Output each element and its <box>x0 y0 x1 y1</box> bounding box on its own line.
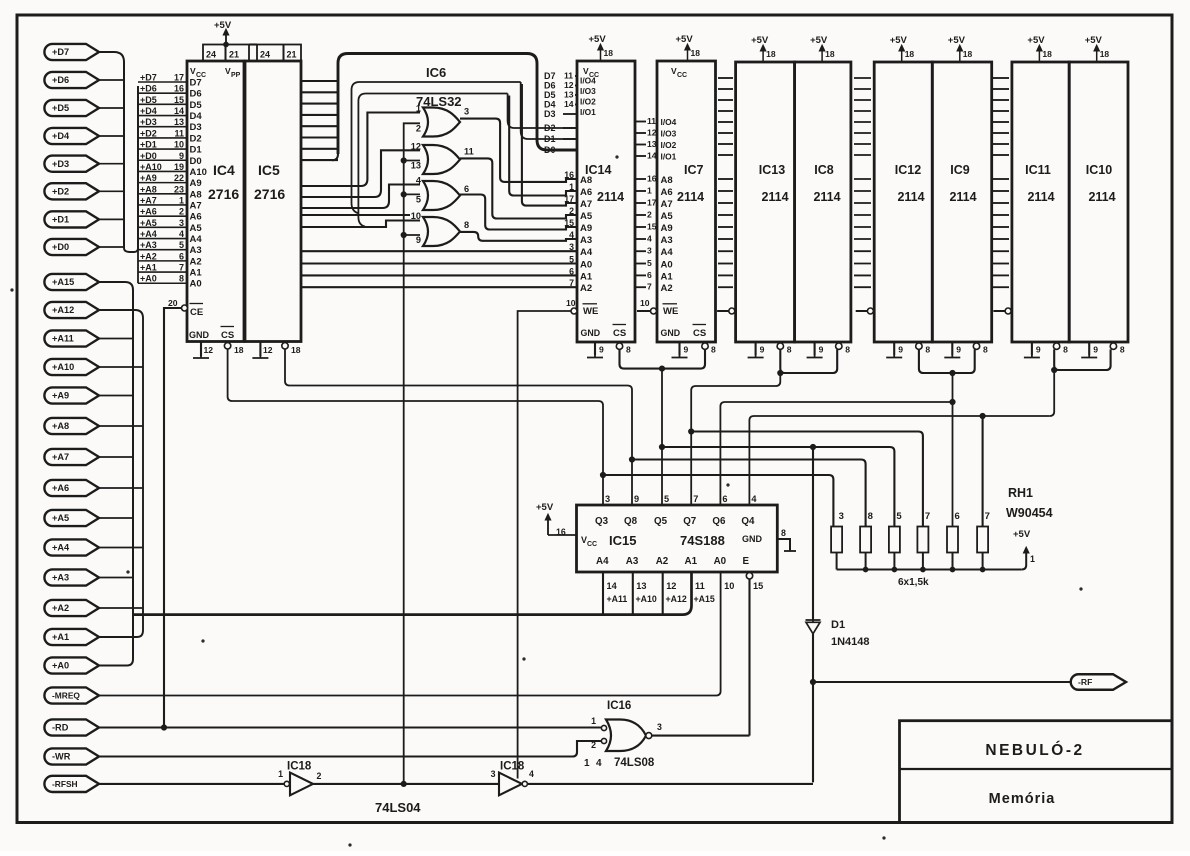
svg-text:IC8: IC8 <box>814 163 834 177</box>
svg-text:7: 7 <box>179 263 184 273</box>
svg-text:13: 13 <box>636 581 646 591</box>
svg-text:21: 21 <box>287 50 297 60</box>
wire: IC13/IC8 select to Q7 <box>691 373 780 505</box>
svg-text:+5V: +5V <box>536 502 554 513</box>
connector tag +A5 <box>44 510 99 526</box>
or-gate IC6 unit pins 4,5->6 <box>423 181 460 210</box>
svg-text:7: 7 <box>569 278 574 288</box>
svg-text:+A1: +A1 <box>140 263 157 273</box>
svg-text:A7: A7 <box>190 200 202 211</box>
title block <box>900 721 1173 823</box>
svg-text:D6: D6 <box>544 81 556 91</box>
svg-text:8: 8 <box>711 345 716 355</box>
svg-text:+A7: +A7 <box>52 452 69 462</box>
wire: D tag stub <box>99 135 124 137</box>
svg-text:+D1: +D1 <box>140 140 157 150</box>
svg-text:Q8: Q8 <box>624 516 638 527</box>
svg-text:D3: D3 <box>190 122 202 133</box>
svg-text:1: 1 <box>278 769 283 779</box>
svg-text:+A12: +A12 <box>52 305 74 315</box>
connector tag +A11 <box>44 330 99 346</box>
IC11 WE bubble <box>1005 308 1011 314</box>
svg-text:IC10: IC10 <box>1086 163 1112 177</box>
and-gate IC16 (de morgan) pins 1,2 -> 3 <box>606 720 646 752</box>
svg-text:5: 5 <box>896 511 902 522</box>
wire: RH1 pin 1 to +5V <box>1022 549 1026 570</box>
svg-text:CC: CC <box>587 541 597 548</box>
svg-text:A5: A5 <box>661 211 674 222</box>
svg-text:Q3: Q3 <box>595 516 609 527</box>
svg-text:2114: 2114 <box>1088 190 1115 204</box>
connector tag -RFSH <box>44 776 99 792</box>
IC7 WE bubble <box>651 308 657 314</box>
wire: A tag stub <box>99 577 133 579</box>
svg-text:A8: A8 <box>580 175 592 186</box>
svg-text:5: 5 <box>179 240 184 250</box>
svg-text:A10: A10 <box>190 167 207 178</box>
svg-text:A3: A3 <box>580 235 592 246</box>
connector tag +A9 <box>44 387 99 403</box>
resistor RH1 element 3 <box>831 527 842 553</box>
ground IC13 <box>748 355 764 358</box>
connector tag +A0 <box>44 657 99 673</box>
svg-text:E: E <box>743 556 750 567</box>
IC14 WE bubble <box>571 308 577 314</box>
svg-text:A0: A0 <box>190 279 202 290</box>
svg-text:WE: WE <box>583 306 598 317</box>
svg-text:+D0: +D0 <box>52 242 69 252</box>
svg-text:18: 18 <box>766 49 776 59</box>
noise <box>11 289 13 291</box>
ground IC14 <box>587 355 603 358</box>
wire: IC4 pin row +A2 pin 6 <box>138 260 187 262</box>
svg-text:IC7: IC7 <box>684 163 704 177</box>
wire: MREQ to IC15 A0 <box>99 572 721 696</box>
svg-text:IC5: IC5 <box>258 162 280 178</box>
wire: gate1 output to A8 <box>460 119 577 182</box>
svg-text:Q6: Q6 <box>712 516 726 527</box>
svg-text:12: 12 <box>666 581 676 591</box>
svg-text:8: 8 <box>925 345 930 355</box>
IC8 GND pin 9 <box>814 342 816 355</box>
connector tag +A4 <box>44 539 99 555</box>
connector tag +A12 <box>44 302 99 318</box>
wire: IC4 pin row +A3 pin 5 <box>138 249 187 251</box>
svg-text:+A10: +A10 <box>636 594 657 604</box>
svg-text:8: 8 <box>781 528 786 538</box>
svg-text:+A7: +A7 <box>140 195 157 205</box>
svg-text:+5V: +5V <box>1013 529 1031 540</box>
ground IC4 <box>193 356 209 358</box>
svg-text:18: 18 <box>1042 49 1052 59</box>
svg-text:9: 9 <box>684 345 689 355</box>
wire: IC16 output to E <box>652 735 750 737</box>
resistor RH1 element 7 <box>917 527 928 553</box>
wire: arcB extension to A7 <box>522 84 577 206</box>
wire: inverter a out to inverter b <box>313 783 499 785</box>
wire: IC4 pin row +D2 pin 11 <box>138 137 187 139</box>
svg-text:IC16: IC16 <box>607 700 631 712</box>
svg-text:+5V: +5V <box>751 35 769 46</box>
svg-text:2114: 2114 <box>677 190 704 204</box>
svg-text:9: 9 <box>416 235 421 245</box>
connector tag +A1 <box>44 629 99 645</box>
svg-text:A1: A1 <box>661 271 674 282</box>
svg-text:12: 12 <box>263 345 273 355</box>
wire: D1 to RF node <box>812 634 814 782</box>
IC13 GND pin 9 <box>755 342 757 355</box>
svg-text:+D0: +D0 <box>140 151 157 161</box>
connector tag +D6 <box>44 72 99 88</box>
svg-text:A9: A9 <box>580 223 592 234</box>
IC14 CS pin 8 <box>616 343 622 349</box>
IC13 2114 RAM <box>736 62 795 342</box>
wire: IC11/IC10 select vertical <box>1050 370 1055 416</box>
svg-text:12: 12 <box>564 80 574 90</box>
IC11 GND pin 9 <box>1031 342 1033 355</box>
svg-text:+A3: +A3 <box>140 240 157 250</box>
IC7 2114 RAM <box>657 61 716 342</box>
IC13 WE bubble <box>729 308 735 314</box>
svg-text:13: 13 <box>174 117 184 127</box>
wire: D1 upper link to select row R3 <box>812 447 814 620</box>
svg-text:7: 7 <box>925 511 930 522</box>
svg-text:CS: CS <box>613 328 626 339</box>
svg-text:A7: A7 <box>580 199 592 210</box>
svg-text:IC13: IC13 <box>759 163 785 177</box>
wire: select row R3 (Q5) <box>662 447 894 527</box>
wire: gate4 output to A3 <box>460 232 577 241</box>
svg-text:2: 2 <box>179 207 184 217</box>
ground IC11 <box>1024 355 1040 358</box>
wire: select row R1 (Q3) <box>603 475 833 527</box>
wire: select row R5 (Q6) <box>720 402 952 505</box>
svg-text:+5V: +5V <box>810 35 828 46</box>
connector tag +D7 <box>44 44 99 60</box>
wire: A0 row <box>301 262 577 264</box>
svg-text:IC12: IC12 <box>895 163 921 177</box>
svg-text:A4: A4 <box>596 556 609 567</box>
svg-text:+A9: +A9 <box>52 391 69 401</box>
svg-text:IC18: IC18 <box>500 761 525 773</box>
wire: A1 row <box>301 274 577 276</box>
svg-text:3: 3 <box>657 722 662 732</box>
svg-text:5: 5 <box>647 258 652 268</box>
svg-text:+A0: +A0 <box>140 274 157 284</box>
svg-text:D4: D4 <box>190 111 203 122</box>
resistor RH1 element 8 <box>860 527 871 553</box>
svg-text:4: 4 <box>179 229 184 239</box>
svg-text:-RD: -RD <box>52 723 69 733</box>
svg-text:+A8: +A8 <box>52 421 69 431</box>
svg-text:14: 14 <box>174 106 184 116</box>
or-gate IC6 unit pins 1,2->3 <box>423 108 460 137</box>
svg-text:RH1: RH1 <box>1008 486 1033 500</box>
wire: select row R4 (Q7) <box>691 432 923 527</box>
connector tag +D3 <box>44 156 99 172</box>
wire: D tag stub <box>99 246 124 248</box>
svg-text:15: 15 <box>174 95 184 105</box>
svg-text:16: 16 <box>564 170 574 180</box>
wire: A tag stub <box>99 517 133 519</box>
svg-text:A0: A0 <box>580 260 592 271</box>
svg-text:8: 8 <box>1063 345 1068 355</box>
svg-text:PP: PP <box>231 72 241 79</box>
svg-text:A6: A6 <box>661 187 673 198</box>
wire: A4 row <box>301 250 577 252</box>
svg-text:3: 3 <box>464 107 469 117</box>
wire: IC4 pin row +A6 pin 2 <box>138 215 187 217</box>
+5V IC14 <box>600 46 602 61</box>
svg-text:18: 18 <box>691 48 701 58</box>
wire: IC4 pin row +A8 pin 23 <box>138 193 187 195</box>
svg-text:17: 17 <box>174 73 184 83</box>
svg-text:9: 9 <box>1093 345 1098 355</box>
ground IC7 <box>672 355 688 358</box>
svg-text:1N4148: 1N4148 <box>831 636 870 648</box>
svg-text:CS: CS <box>693 328 706 339</box>
wire: IC4 CS to Q3 <box>228 349 603 505</box>
svg-text:2114: 2114 <box>813 190 840 204</box>
svg-text:17: 17 <box>564 194 574 204</box>
svg-text:WE: WE <box>663 306 678 317</box>
svg-text:I/O3: I/O3 <box>580 86 596 96</box>
svg-text:23: 23 <box>174 184 184 194</box>
svg-text:+A4: +A4 <box>140 229 157 239</box>
wire: IC13/IC8 CS join <box>780 349 837 373</box>
wire: IC4 pin row +D3 pin 13 <box>138 126 187 128</box>
wire: gate3 output to A9 <box>460 195 577 230</box>
wire: A5 row stub <box>301 214 410 216</box>
svg-text:2114: 2114 <box>597 190 624 204</box>
svg-text:3: 3 <box>491 769 496 779</box>
svg-text:-MREQ: -MREQ <box>52 691 80 701</box>
svg-text:18: 18 <box>604 48 614 58</box>
svg-text:20: 20 <box>168 298 178 308</box>
wire: IC4 pin row +D1 pin 10 <box>138 148 187 150</box>
svg-text:+D2: +D2 <box>52 187 69 197</box>
svg-text:8: 8 <box>179 274 184 284</box>
IC9 GND pin 9 <box>951 342 953 355</box>
svg-text:15: 15 <box>647 222 657 232</box>
svg-text:11: 11 <box>647 116 656 126</box>
svg-text:8: 8 <box>1120 345 1125 355</box>
resistor RH1 element 7 <box>977 527 988 553</box>
svg-text:10: 10 <box>640 298 650 308</box>
svg-text:A5: A5 <box>580 211 593 222</box>
wire: IC15 A2 drop <box>662 572 664 615</box>
connector tag -RF <box>1071 674 1126 690</box>
wire: IC4 pin row +D5 pin 15 <box>138 103 187 105</box>
wire: A-tag bundle vertical right <box>99 310 143 637</box>
svg-text:9: 9 <box>819 345 824 355</box>
svg-text:2716: 2716 <box>208 186 239 202</box>
svg-text:+D6: +D6 <box>52 75 69 85</box>
wire: IC12/IC9 CS join <box>919 349 975 373</box>
+5V IC12 <box>901 47 903 62</box>
svg-text:2114: 2114 <box>897 190 924 204</box>
connector tag +A15 <box>44 274 99 290</box>
connector tag +A3 <box>44 569 99 585</box>
svg-text:11: 11 <box>464 146 474 156</box>
svg-text:2: 2 <box>317 771 322 781</box>
wire: bus arc C <box>358 94 507 227</box>
svg-text:A1: A1 <box>685 556 698 567</box>
svg-text:GND: GND <box>581 328 601 338</box>
svg-text:+A5: +A5 <box>140 218 157 228</box>
svg-text:A0: A0 <box>661 260 673 271</box>
svg-text:1: 1 <box>569 182 574 192</box>
svg-text:+A15: +A15 <box>52 277 74 287</box>
svg-text:13: 13 <box>564 90 574 100</box>
svg-text:2: 2 <box>569 206 574 216</box>
svg-text:-RF: -RF <box>1078 677 1092 687</box>
svg-text:Q5: Q5 <box>654 516 668 527</box>
wire: IC11/IC10 CS join <box>1054 349 1110 370</box>
svg-text:A1: A1 <box>190 268 203 279</box>
svg-text:3: 3 <box>569 242 574 252</box>
svg-text:D7: D7 <box>544 71 556 81</box>
svg-text:D1: D1 <box>190 145 203 156</box>
wire: IC4 pin row +A9 pin 22 <box>138 182 187 184</box>
svg-text:15: 15 <box>564 218 574 228</box>
wire: R6 drop <box>982 416 984 527</box>
svg-text:I/O4: I/O4 <box>580 76 596 86</box>
svg-text:D5: D5 <box>544 90 556 100</box>
wire: A tag stub <box>99 425 143 427</box>
IC5 CS pin 18 <box>282 343 288 349</box>
wire: IC4 pin row +D0 pin 9 <box>138 159 187 161</box>
svg-text:IC9: IC9 <box>950 163 970 177</box>
IC9 2114 RAM <box>932 62 991 342</box>
wire: IC4 pin row +D4 pin 14 <box>138 115 187 117</box>
svg-text:12: 12 <box>647 128 657 138</box>
wire: bus arc A outer <box>338 54 577 155</box>
svg-text:21: 21 <box>229 50 239 60</box>
wire: A-tag bundle vertical left <box>99 282 133 666</box>
svg-text:A2: A2 <box>580 283 592 294</box>
wire: address bus to tags <box>133 572 692 615</box>
wire: gate3 input row <box>301 185 420 209</box>
svg-text:4: 4 <box>596 758 602 769</box>
svg-text:3: 3 <box>839 511 844 522</box>
IC10 GND pin 9 <box>1088 342 1090 355</box>
svg-text:A1: A1 <box>580 271 593 282</box>
connector tag +A8 <box>44 418 99 434</box>
wire: D-tag bundle vertical <box>99 52 124 248</box>
wire: IC4 pin row +D6 pin 16 <box>138 92 187 94</box>
wire: IC4 pin row +A4 pin 4 <box>138 238 187 240</box>
svg-text:D0: D0 <box>190 156 202 167</box>
svg-text:+A10: +A10 <box>140 162 162 172</box>
wire: A tag stub <box>99 547 143 549</box>
+5V IC9 <box>959 47 961 62</box>
svg-text:74S188: 74S188 <box>680 533 725 548</box>
svg-text:3: 3 <box>179 218 184 228</box>
IC13 CS pin 8 <box>777 343 783 349</box>
svg-text:9: 9 <box>1036 345 1041 355</box>
svg-text:13: 13 <box>647 139 657 149</box>
wire: WR to IC16 input 2 <box>99 741 602 757</box>
svg-text:5: 5 <box>569 255 574 265</box>
svg-text:18: 18 <box>1100 49 1110 59</box>
svg-text:9: 9 <box>599 345 604 355</box>
connector tag +D2 <box>44 183 99 199</box>
wire: RFSH to inverter <box>99 783 284 785</box>
ground IC9 <box>944 355 960 358</box>
svg-text:A2: A2 <box>656 556 669 567</box>
svg-text:D0: D0 <box>544 145 556 155</box>
svg-text:+D4: +D4 <box>52 131 70 141</box>
IC10 CS pin 8 <box>1110 343 1116 349</box>
svg-text:+A11: +A11 <box>607 594 628 604</box>
wire: A tag stub <box>99 366 143 368</box>
wire: select row R6 (Q4) <box>749 416 1049 505</box>
+5V IC10 <box>1096 47 1098 62</box>
IC12 CS pin 8 <box>916 343 922 349</box>
wire: resistor bottom <box>922 553 924 570</box>
+5V IC7 <box>687 46 689 61</box>
svg-text:Q4: Q4 <box>741 516 755 527</box>
svg-text:A6: A6 <box>580 187 592 198</box>
svg-text:-RFSH: -RFSH <box>52 779 78 789</box>
wire: strip link <box>249 43 257 45</box>
svg-text:11: 11 <box>695 581 705 591</box>
svg-text:CS: CS <box>221 330 234 341</box>
svg-text:9: 9 <box>179 151 184 161</box>
svg-text:6: 6 <box>464 184 469 194</box>
+5V supply IC4/IC5 <box>225 31 227 45</box>
connector tag -MREQ <box>44 687 99 703</box>
wire: RH1 common bus <box>837 568 1022 570</box>
svg-text:+5V: +5V <box>676 34 694 45</box>
svg-text:6: 6 <box>722 494 727 504</box>
svg-text:Q7: Q7 <box>683 516 697 527</box>
IC5 2716 EPROM <box>245 61 301 342</box>
svg-text:6: 6 <box>179 251 184 261</box>
svg-text:11: 11 <box>174 128 184 138</box>
svg-text:2114: 2114 <box>949 190 976 204</box>
svg-text:A7: A7 <box>661 199 673 210</box>
svg-text:A0: A0 <box>714 556 727 567</box>
svg-text:+D5: +D5 <box>140 95 157 105</box>
svg-text:+A3: +A3 <box>52 573 69 583</box>
svg-text:6: 6 <box>955 511 960 522</box>
svg-text:6: 6 <box>569 266 574 276</box>
IC15 74S188 PROM <box>577 505 778 572</box>
svg-text:+A4: +A4 <box>52 543 70 553</box>
wire: IC12/IC9 select vertical to R5 <box>952 373 954 527</box>
IC4 CS pin 18 <box>224 343 230 349</box>
wire: resistor bottom <box>893 553 895 570</box>
svg-text:A9: A9 <box>190 178 202 189</box>
svg-text:+A5: +A5 <box>52 513 69 523</box>
svg-text:A5: A5 <box>190 223 203 234</box>
svg-text:+5V: +5V <box>948 35 966 46</box>
svg-text:9: 9 <box>956 345 961 355</box>
svg-text:24: 24 <box>206 50 216 60</box>
svg-text:+A10: +A10 <box>52 362 74 372</box>
ground IC12 <box>886 355 902 358</box>
svg-text:11: 11 <box>564 71 573 81</box>
svg-text:13: 13 <box>411 161 421 171</box>
wire: IC5 CS to Q8 <box>285 349 632 505</box>
svg-text:A4: A4 <box>190 234 203 245</box>
connector tag +D0 <box>44 239 99 255</box>
wire: D tag stub <box>99 190 124 192</box>
svg-text:+A1: +A1 <box>52 632 69 642</box>
wire: A9 row to gate4 pin10 <box>301 221 420 228</box>
